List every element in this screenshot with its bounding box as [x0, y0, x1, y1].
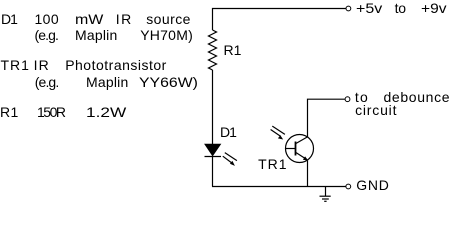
text: parts list line 4: [35, 75, 59, 89]
resistor R1: [209, 30, 217, 70]
LED emission arrow upper: [225, 153, 237, 161]
label to debounce (line 1): [355, 90, 369, 104]
wire bottom rail: [212, 186, 346, 188]
label R1: [224, 43, 242, 57]
wire top horizontal from corner to +5v terminal: [213, 9, 346, 31]
text: parts list line 2: [35, 28, 59, 42]
diode D1 triangle: [205, 144, 220, 155]
terminal +5v: [346, 6, 351, 11]
transistor TR1 base bar: [295, 142, 297, 156]
transistor TR1 collector diagonal: [296, 137, 308, 144]
wire collector to debounce terminal: [308, 99, 345, 137]
terminal GND: [346, 184, 351, 189]
label circuit (line 2): [355, 103, 397, 117]
transistor TR1 circle: [286, 135, 314, 163]
label +5v to +9v: [356, 1, 382, 15]
wire LED to bottom rail: [212, 157, 214, 187]
wire emitter to bottom rail: [307, 161, 309, 187]
text: parts list line 1: [1, 12, 17, 26]
TR1 light arrow upper: [272, 126, 285, 134]
wire resistor to LED: [212, 70, 214, 145]
label D1: [220, 125, 236, 139]
LED emission arrow lower: [223, 156, 235, 166]
ground: [320, 187, 331, 202]
diode D1 cathode bar: [205, 156, 222, 158]
text: parts list line 5: [0, 105, 19, 119]
terminal to-debounce: [345, 97, 350, 102]
label TR1: [258, 157, 287, 171]
text: parts list line 3: [1, 58, 30, 72]
TR1 light arrow lower: [271, 130, 284, 140]
transistor TR1 emitter diagonal with arrow: [296, 153, 308, 161]
transistor TR1 base lead: [286, 148, 296, 150]
label GND: [356, 178, 389, 192]
